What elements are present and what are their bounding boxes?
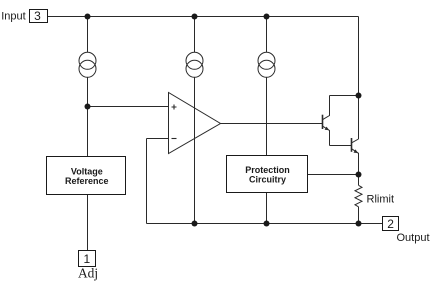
wire: Q1 emitter to Q2 base bbox=[330, 145, 352, 147]
wire: CS1 top lead bbox=[87, 17, 89, 53]
pin box 3 (Input) bbox=[30, 10, 48, 23]
svg-text:3: 3 bbox=[34, 9, 41, 23]
svg-text:Circuitry: Circuitry bbox=[249, 174, 286, 184]
junction dot bottom rail / protection bbox=[264, 221, 270, 227]
wire: right vertical rail from input rail to Q2 collector bbox=[358, 17, 360, 140]
pin box 2 (Output) bbox=[383, 217, 399, 231]
svg-text:1: 1 bbox=[83, 252, 90, 266]
wire: bottom rail to output pin bbox=[147, 223, 383, 225]
resistor Rlimit bbox=[355, 185, 362, 207]
wire: node A down to Voltage Reference top bbox=[87, 107, 89, 157]
junction dot Q2 emitter / protection bbox=[356, 172, 362, 178]
Protection Circuitry block bbox=[227, 156, 308, 193]
wire: CS1 bottom lead to node A bbox=[87, 77, 89, 106]
wire: Q1 collector rail to right rail junction bbox=[330, 95, 359, 97]
svg-text:Input: Input bbox=[1, 11, 25, 23]
junction dot output node bbox=[356, 221, 362, 227]
svg-text:Rlimit: Rlimit bbox=[367, 194, 395, 206]
transistor Q1 bbox=[323, 96, 330, 146]
op-amp U1 bbox=[169, 93, 221, 154]
label Protection Circuitry bbox=[245, 165, 290, 184]
wire: top input rail bbox=[48, 16, 359, 18]
junction dot node A bbox=[85, 104, 91, 110]
wire: CS2 bottom lead through op-amp to bottom rail bbox=[194, 77, 196, 223]
current source I3 bbox=[258, 52, 275, 77]
wire: CS2 top lead bbox=[194, 17, 196, 53]
wire: Protection Circuitry bottom to bottom rail bbox=[266, 193, 268, 224]
svg-text:Output: Output bbox=[397, 232, 430, 244]
wire: Rlimit bottom to output node bbox=[358, 207, 360, 224]
transistor Q2 bbox=[352, 138, 359, 175]
svg-text:Voltage: Voltage bbox=[71, 167, 103, 177]
wire: node A to op-amp non-inverting input bbox=[88, 106, 169, 108]
wire: Voltage Reference bottom to Adj pin box bbox=[87, 195, 89, 251]
wire: op-amp output to Q1 base bbox=[221, 123, 323, 125]
wire: Q2 emitter node down to Rlimit top bbox=[358, 175, 360, 186]
junction dot collector rail bbox=[356, 93, 362, 99]
wire: CS3 bottom lead to Protection Circuitry top bbox=[266, 77, 268, 155]
svg-text:Reference: Reference bbox=[65, 176, 109, 186]
junction dot top rail / CS1 bbox=[85, 14, 91, 20]
wire: CS3 top lead bbox=[266, 17, 268, 53]
wire: feedback vertical down to bottom rail bbox=[146, 139, 148, 224]
junction dot bottom rail / CS2 bbox=[192, 221, 198, 227]
current source I1 bbox=[79, 52, 96, 77]
svg-text:2: 2 bbox=[387, 217, 394, 231]
svg-text:Adj: Adj bbox=[78, 266, 98, 281]
Voltage Reference block bbox=[47, 157, 126, 195]
label Voltage Reference bbox=[65, 167, 109, 187]
wire: feedback to op-amp inverting input bbox=[147, 138, 169, 140]
wire: Protection Circuitry output to Q2 emitter node bbox=[308, 174, 359, 176]
pin box 1 (Adj) bbox=[79, 251, 96, 267]
junction dot top rail / CS3 bbox=[264, 14, 270, 20]
current source I2 bbox=[186, 52, 203, 77]
junction dot top rail / CS2 bbox=[192, 14, 198, 20]
